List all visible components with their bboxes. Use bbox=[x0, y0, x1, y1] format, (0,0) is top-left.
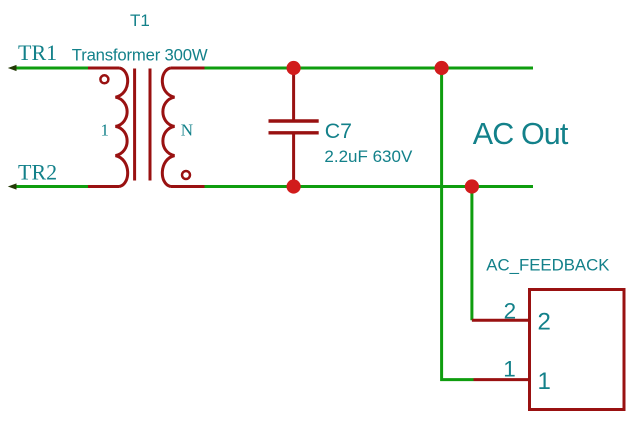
wire end arrow TR1 bbox=[8, 65, 17, 71]
wire feedback net 1 vertical and horizontal bbox=[442, 68, 474, 380]
wire end arrow TR2 bbox=[8, 183, 17, 189]
svg-text:T1: T1 bbox=[130, 11, 150, 30]
transformer T1 primary polarity dot bbox=[100, 75, 108, 83]
svg-text:N: N bbox=[181, 121, 193, 140]
svg-text:TR1: TR1 bbox=[18, 40, 57, 65]
junction bottom at capacitor bbox=[287, 179, 301, 193]
junction bottom at feedback branch bbox=[465, 179, 479, 193]
transformer T1 secondary winding bbox=[162, 68, 174, 187]
junction top at AC Out branch bbox=[435, 61, 449, 75]
svg-text:2.2uF 630V: 2.2uF 630V bbox=[324, 147, 413, 166]
transformer T1 core line 1 bbox=[133, 69, 136, 181]
connector pin 1 wire bbox=[474, 378, 532, 381]
svg-text:TR2: TR2 bbox=[18, 160, 57, 185]
wire TR1 left segment bbox=[12, 67, 88, 70]
wire TR2 left segment bbox=[12, 185, 88, 188]
capacitor C7 bottom lead bbox=[292, 133, 295, 187]
svg-text:2: 2 bbox=[538, 309, 551, 336]
transformer T1 secondary polarity dot bbox=[182, 171, 190, 179]
svg-text:AC Out: AC Out bbox=[473, 117, 569, 151]
transformer T1 secondary bottom pin bbox=[171, 185, 205, 188]
transformer T1 primary winding bbox=[116, 68, 128, 187]
svg-text:1: 1 bbox=[538, 368, 551, 395]
connector pin 2 wire bbox=[472, 319, 531, 322]
wire feedback net 2 vertical bbox=[470, 187, 473, 321]
capacitor C7 top lead bbox=[292, 68, 295, 121]
svg-text:AC_FEEDBACK: AC_FEEDBACK bbox=[486, 256, 609, 275]
transformer T1 primary bottom pin bbox=[88, 185, 120, 188]
transformer T1 primary top pin bbox=[88, 67, 120, 70]
transformer T1 core line 2 bbox=[149, 69, 152, 181]
capacitor C7 bottom plate bbox=[269, 131, 319, 134]
svg-text:C7: C7 bbox=[325, 119, 352, 143]
svg-text:1: 1 bbox=[503, 357, 516, 382]
wire bottom bus bbox=[205, 185, 534, 188]
svg-text:Transformer 300W: Transformer 300W bbox=[72, 46, 208, 65]
connector AC_FEEDBACK body bbox=[530, 290, 625, 410]
transformer T1 secondary top pin bbox=[171, 67, 205, 70]
svg-text:1: 1 bbox=[101, 121, 110, 140]
junction top at capacitor bbox=[287, 61, 301, 75]
capacitor C7 top plate bbox=[269, 119, 319, 122]
svg-text:2: 2 bbox=[504, 298, 517, 323]
wire top bus bbox=[205, 67, 534, 70]
